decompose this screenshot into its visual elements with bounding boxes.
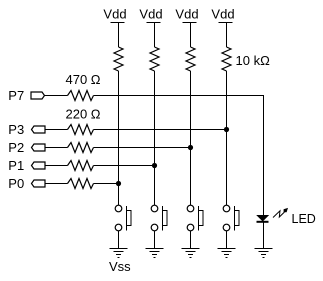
svg-text:P2: P2	[8, 140, 24, 155]
svg-text:470 Ω: 470 Ω	[66, 72, 101, 87]
svg-text:P1: P1	[8, 158, 24, 173]
svg-text:Vdd: Vdd	[103, 7, 126, 22]
svg-text:P3: P3	[8, 122, 24, 137]
svg-text:Vdd: Vdd	[175, 7, 198, 22]
svg-text:P0: P0	[8, 176, 24, 191]
svg-text:P7: P7	[8, 88, 24, 103]
svg-text:Vss: Vss	[109, 259, 131, 274]
svg-text:Vdd: Vdd	[139, 7, 162, 22]
svg-text:LED: LED	[292, 212, 316, 226]
svg-text:220 Ω: 220 Ω	[66, 107, 101, 122]
svg-text:Vdd: Vdd	[211, 7, 234, 22]
svg-text:10 kΩ: 10 kΩ	[236, 53, 271, 68]
